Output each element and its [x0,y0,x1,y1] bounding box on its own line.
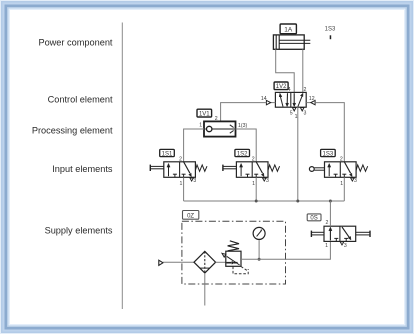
svg-text:3: 3 [266,178,269,184]
valve 1S2 port numbers [252,157,269,187]
valve 0S port numbers [325,220,347,249]
svg-text:Control element: Control element [48,95,113,105]
svg-text:4: 4 [288,87,291,93]
marker 1S3 position [325,26,336,39]
wire 1V1 output to pilot 14 [221,103,267,122]
label box 0Z [183,211,199,220]
junction gauge supply line [258,258,261,261]
wire 1V1 right port to 1S2 output [236,129,257,162]
label box 1A [280,24,296,34]
valve 0S exhaust triangle [340,242,344,245]
svg-text:1: 1 [325,243,328,249]
svg-text:2: 2 [326,220,329,226]
svg-text:3: 3 [354,178,357,184]
svg-text:1: 1 [295,114,298,120]
shuttle valve 1V1 [204,121,236,136]
svg-text:Input elements: Input elements [52,164,113,174]
regulator relief dashed line [241,267,248,272]
svg-text:2: 2 [252,157,255,163]
wire 0S port 2 to manifold [329,201,331,226]
svg-text:Power component: Power component [38,38,112,48]
cylinder 1A [273,35,310,49]
valve 1S3 roller actuator [309,167,324,172]
label box 1S1 [160,149,175,157]
svg-text:2: 2 [215,116,218,122]
svg-text:1: 1 [340,181,343,187]
label box 1S2 [235,149,250,157]
service unit 0Z enclosure [182,221,286,284]
svg-text:0Z: 0Z [187,214,194,220]
label box 1V1 [197,109,212,117]
valve 1S3 exhaust triangle [351,178,355,181]
svg-text:3: 3 [344,243,347,249]
valve 1S2 pushbutton [223,165,237,171]
wire source to filter [163,261,194,263]
label box 1V2 [274,82,288,90]
filter 0Z [194,251,216,273]
wire cylinder right port to 1V2 port 2 [302,49,304,92]
wire 1S3 port 1 to manifold [343,177,345,201]
svg-text:1(3): 1(3) [238,123,247,129]
svg-text:1S2: 1S2 [237,151,248,157]
svg-text:1S3: 1S3 [325,26,336,32]
svg-text:1: 1 [199,123,202,129]
wire 1V1 left port to 1S1 output [184,129,204,162]
junction 1V2 manifold [296,200,299,203]
pressure regulator 0Z [226,251,241,266]
wire 1S2 port 1 to manifold [255,177,257,201]
valve 1S2 exhaust triangle [263,178,267,181]
valve 1V2 body [275,92,306,107]
valve 1S1 exhaust triangle [190,178,194,181]
valve 1S1 port numbers [179,157,196,187]
valve 0S right hand lever [356,231,370,237]
svg-text:1S3: 1S3 [323,151,334,157]
svg-text:Supply elements: Supply elements [45,225,113,235]
svg-text:1A: 1A [284,27,293,34]
valve 1S3 3/2 roller [325,162,357,178]
valve 1S2 spring [268,165,280,171]
wire regulator output to 0S port 1 [241,241,330,259]
valve 1V2 left position flow paths [279,93,288,106]
svg-text:5: 5 [290,111,293,117]
svg-text:0S: 0S [310,216,317,222]
svg-text:1V1: 1V1 [199,112,210,118]
valve 1V2 port numbers [261,87,315,120]
junction 0S manifold [329,200,332,203]
valve 1V2 right position flow paths [293,93,303,106]
valve 1S3 port numbers [340,157,357,187]
svg-text:1: 1 [180,181,183,187]
svg-text:2: 2 [340,157,343,163]
label box 1S3 [321,149,336,157]
svg-text:3: 3 [303,111,306,117]
filter drain line [204,273,206,306]
valve 1S2 3/2 pushbutton [236,162,268,178]
row labels [32,38,113,236]
wire supply manifold [184,200,345,202]
valve 0S 3/2 shut-off [324,226,356,241]
valve 0S left hand lever [311,231,324,237]
svg-text:Processing element: Processing element [32,126,113,136]
separator line [121,23,123,310]
valve 1V2 pilot 14 symbol [266,100,275,104]
svg-text:1S1: 1S1 [162,151,173,157]
junction 1S2 manifold [255,200,258,203]
wire 1S1 port 1 to manifold [183,177,185,201]
valve 1V2 pilot 12 symbol [306,100,315,104]
wire filter to regulator [216,261,226,263]
valve 1S3 spring [356,165,368,171]
svg-text:2: 2 [179,157,182,163]
shuttle valve 1V1 port numbers [199,116,247,129]
valve 1V2 exhaust triangle port 5 [292,108,296,111]
label box 0S [307,214,321,222]
valve 1S1 pushbutton [150,165,164,171]
svg-text:3: 3 [193,178,196,184]
compressed air source [159,260,163,265]
svg-text:2: 2 [303,87,306,93]
svg-text:1V2: 1V2 [276,84,287,90]
wire 1V2 port 1 to manifold [297,107,299,201]
valve 1S1 3/2 pushbutton [164,162,196,178]
svg-text:1: 1 [252,181,255,187]
valve 1V2 exhaust triangle port 3 [300,108,304,111]
pressure gauge stem [258,240,260,260]
valve 1S1 spring [195,165,207,171]
regulator spring [228,241,239,251]
wire pilot 12 to 1S3 output [315,103,344,162]
wire cylinder left port to 1V2 port 4 [276,49,295,92]
pressure gauge [253,227,265,239]
